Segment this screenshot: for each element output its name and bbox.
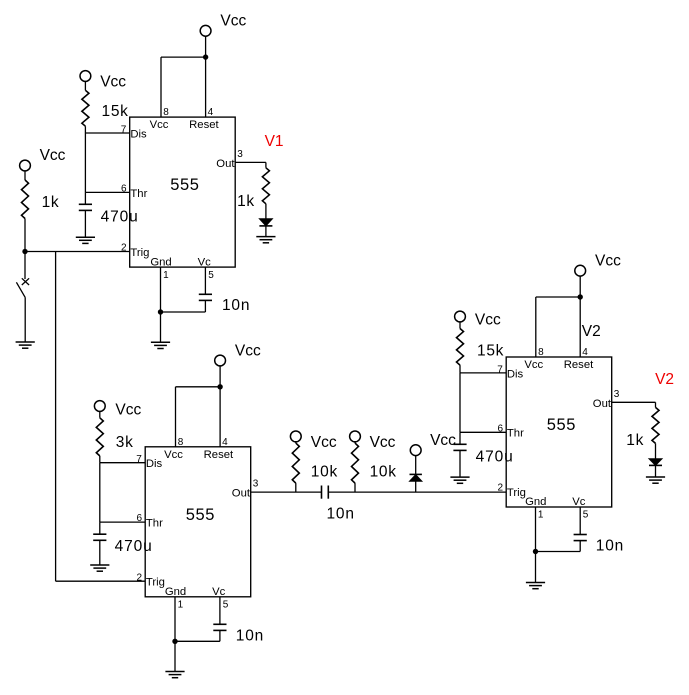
svg-text:Vcc: Vcc bbox=[235, 342, 261, 359]
resistor 1k (V2 output) bbox=[626, 407, 659, 458]
junction U1 ground node bbox=[158, 309, 163, 314]
wire to U1 pin 6 Thr bbox=[85, 191, 129, 193]
wire U3 Dis node down to Thr node bbox=[459, 373, 461, 432]
svg-text:555: 555 bbox=[186, 506, 215, 524]
Vcc power terminal above U1 bbox=[200, 13, 246, 37]
U1 pin 5 Vc label bbox=[198, 256, 215, 281]
wire U3 pin 3 Out to 1k bbox=[612, 402, 656, 407]
resistor 1k pull-up on trigger rail bbox=[22, 171, 60, 252]
U3 pin 7 Dis label bbox=[497, 364, 523, 380]
svg-text:555: 555 bbox=[547, 416, 576, 434]
Vcc power terminal for R 15k (U3) bbox=[455, 311, 501, 328]
junction on U3 Vcc wire bbox=[578, 294, 583, 299]
svg-text:4: 4 bbox=[208, 107, 214, 118]
svg-text:5: 5 bbox=[208, 270, 214, 281]
svg-text:Reset: Reset bbox=[564, 359, 594, 371]
capacitor 470u (U1 timing) bbox=[79, 192, 139, 237]
U2 pin 1 Gnd label bbox=[165, 586, 186, 611]
ground below 470u (U1) bbox=[76, 236, 95, 238]
svg-text:8: 8 bbox=[163, 107, 169, 118]
svg-text:1k: 1k bbox=[237, 193, 255, 210]
svg-text:Dis: Dis bbox=[130, 128, 147, 140]
svg-text:4: 4 bbox=[582, 347, 588, 358]
wire junction to U1 pin 8 bbox=[161, 57, 206, 117]
svg-text:V1: V1 bbox=[265, 133, 284, 150]
svg-text:555: 555 bbox=[170, 176, 199, 194]
svg-text:Vcc: Vcc bbox=[115, 401, 141, 418]
svg-text:10k: 10k bbox=[370, 464, 397, 481]
svg-text:Dis: Dis bbox=[146, 458, 163, 470]
555 timer IC U3 bbox=[506, 357, 612, 507]
wire to U2 pin 6 Thr bbox=[100, 521, 145, 523]
U1 pin 8 Vcc label bbox=[150, 107, 170, 131]
svg-text:7: 7 bbox=[497, 364, 503, 375]
svg-text:10n: 10n bbox=[327, 505, 355, 522]
Vcc power terminal above U2 bbox=[215, 342, 261, 366]
wire U2 pin 1 Gnd down bbox=[174, 597, 176, 642]
ground below diode D2 bbox=[646, 476, 665, 478]
U2 pin 8 Vcc label bbox=[164, 437, 184, 461]
svg-text:Gnd: Gnd bbox=[165, 586, 186, 598]
svg-text:10k: 10k bbox=[311, 464, 338, 481]
ground below switch bbox=[16, 341, 35, 343]
svg-text:470u: 470u bbox=[101, 208, 139, 225]
svg-text:7: 7 bbox=[136, 454, 142, 465]
svg-text:Gnd: Gnd bbox=[525, 496, 546, 508]
U2 pin 6 Thr label bbox=[136, 513, 163, 529]
diode D3 clamp to Vcc bbox=[410, 456, 422, 493]
svg-text:2: 2 bbox=[497, 483, 503, 494]
555 timer IC U2 bbox=[145, 447, 251, 597]
ground below U3 bbox=[526, 582, 545, 584]
Vcc power terminal for R 10k first bbox=[290, 431, 336, 451]
wire 15k to U3 pin 7 Dis bbox=[460, 372, 506, 374]
svg-text:4: 4 bbox=[222, 437, 228, 448]
U3 pin 2 Trig label bbox=[497, 483, 526, 499]
capacitor 470u (U2 timing) bbox=[93, 522, 152, 565]
capacitor 470u (U3 timing) bbox=[453, 432, 513, 477]
Vcc power terminal for R 3k (U2) bbox=[94, 401, 141, 419]
wire U1 ground node down bbox=[160, 312, 162, 342]
wire U2 pin 3 Out to coupling cap bbox=[251, 491, 322, 493]
U2 pin 2 Trig label bbox=[136, 572, 165, 588]
svg-text:Out: Out bbox=[593, 398, 612, 410]
ground below 470u (U2) bbox=[90, 564, 109, 566]
U1 pin 1 Gnd label bbox=[150, 256, 171, 281]
wire junction to U2 pin 8 bbox=[176, 387, 221, 447]
svg-text:Vcc: Vcc bbox=[311, 434, 337, 451]
wire coupling cap to U3 pin 2 Trig bbox=[328, 491, 506, 493]
resistor 3k (U2 discharge) bbox=[96, 411, 133, 462]
svg-text:Vcc: Vcc bbox=[370, 434, 396, 451]
svg-text:15k: 15k bbox=[477, 343, 504, 360]
resistor 10k second pull-up bbox=[352, 442, 397, 492]
junction on U1 Vcc wire bbox=[203, 54, 208, 59]
wire U1 pin 3 Out to 1k bbox=[235, 162, 266, 167]
capacitor 10n (U2 control) bbox=[213, 597, 264, 645]
svg-text:Vcc: Vcc bbox=[150, 119, 169, 131]
svg-text:1k: 1k bbox=[626, 432, 644, 449]
svg-text:1: 1 bbox=[538, 510, 544, 521]
svg-text:Trig: Trig bbox=[146, 577, 165, 589]
svg-text:Out: Out bbox=[216, 158, 235, 170]
svg-text:8: 8 bbox=[178, 437, 184, 448]
svg-text:Vcc: Vcc bbox=[475, 312, 501, 329]
wire U2 Dis node down to Thr node bbox=[99, 463, 101, 522]
ground below 470u (U3) bbox=[450, 476, 469, 478]
Vcc power terminal for R 1k pull-up bbox=[20, 147, 66, 171]
U2 pin 7 Dis label bbox=[136, 454, 162, 470]
svg-text:Thr: Thr bbox=[146, 518, 163, 530]
svg-text:2: 2 bbox=[136, 572, 142, 583]
U2 pin 4 Reset label bbox=[204, 437, 234, 461]
capacitor 10n coupling (series) bbox=[322, 486, 355, 523]
resistor 15k (U1 discharge) bbox=[82, 81, 129, 133]
Vcc power terminal above U3 bbox=[575, 253, 621, 277]
svg-text:Trig: Trig bbox=[130, 247, 149, 259]
junction node trigger rail bbox=[22, 249, 27, 254]
svg-text:7: 7 bbox=[121, 124, 127, 135]
svg-text:1k: 1k bbox=[42, 194, 60, 211]
ground below U2 bbox=[165, 671, 184, 673]
wire to U3 pin 6 Thr bbox=[460, 431, 506, 433]
wire U1 pin 1 Gnd down bbox=[160, 267, 162, 312]
diode D1 (V1 indicator) bbox=[259, 219, 272, 237]
Vcc power terminal for R 10k second bbox=[350, 431, 396, 451]
wire 15k to U1 pin 7 Dis bbox=[85, 132, 129, 134]
diode D2 (V2 indicator) bbox=[649, 459, 662, 477]
svg-text:3: 3 bbox=[237, 149, 243, 160]
Vcc power terminal for clamp diode bbox=[410, 432, 456, 456]
switch S1 to ground bbox=[16, 252, 29, 343]
svg-text:Vcc: Vcc bbox=[164, 449, 183, 461]
svg-text:Gnd: Gnd bbox=[150, 256, 171, 268]
svg-text:Vcc: Vcc bbox=[524, 359, 543, 371]
junction on U2 Vcc wire bbox=[217, 384, 222, 389]
svg-text:3: 3 bbox=[253, 479, 259, 490]
svg-text:Thr: Thr bbox=[507, 428, 524, 440]
svg-text:3k: 3k bbox=[116, 434, 134, 451]
U1 pin 6 Thr label bbox=[121, 184, 148, 200]
wire Vcc terminal down to U3 pin 4 bbox=[579, 276, 581, 357]
svg-text:Vcc: Vcc bbox=[40, 147, 66, 164]
svg-text:470u: 470u bbox=[476, 449, 514, 466]
U3 pin 1 Gnd label bbox=[525, 496, 546, 521]
svg-text:Vcc: Vcc bbox=[595, 253, 621, 270]
svg-text:1: 1 bbox=[163, 270, 169, 281]
svg-text:Vcc: Vcc bbox=[100, 73, 126, 90]
svg-text:15k: 15k bbox=[102, 103, 129, 120]
wire Dis node down to Thr node bbox=[84, 133, 86, 192]
wire U3 pin 1 Gnd down bbox=[535, 507, 537, 552]
U3 pin 3 Out label bbox=[593, 389, 620, 410]
wire 10n to Gnd junction (U3) bbox=[536, 551, 581, 553]
svg-text:470u: 470u bbox=[115, 538, 153, 555]
svg-text:Thr: Thr bbox=[130, 188, 147, 200]
U1 pin 7 Dis label bbox=[121, 124, 147, 140]
junction U2 ground node bbox=[172, 639, 177, 644]
wire 10n to Gnd junction (U1) bbox=[161, 311, 206, 313]
U3 pin 5 Vc label bbox=[572, 496, 589, 521]
svg-text:3: 3 bbox=[614, 389, 620, 400]
junction U3 ground node bbox=[533, 549, 538, 554]
U2 pin 3 Out label bbox=[232, 479, 259, 500]
svg-text:Vc: Vc bbox=[212, 586, 226, 598]
wire U3 ground node down bbox=[535, 552, 537, 583]
U3 pin 6 Thr label bbox=[497, 423, 524, 439]
svg-text:Vcc: Vcc bbox=[430, 432, 456, 449]
resistor 10k first pull-up bbox=[292, 442, 338, 492]
wire Vcc terminal down to U2 pin 4 bbox=[219, 366, 221, 447]
svg-text:V2: V2 bbox=[655, 371, 674, 388]
U1 pin 4 Reset label bbox=[189, 107, 219, 131]
wire trigger rail branch down to U2 Trig bbox=[56, 252, 146, 582]
resistor 1k (V1 output) bbox=[237, 168, 269, 219]
wire Vcc terminal down to U1 pin 4 bbox=[205, 36, 207, 117]
ground below diode D1 bbox=[256, 236, 275, 238]
wire 10n to Gnd junction (U2) bbox=[175, 640, 220, 642]
Vcc power terminal for R 15k (U1) bbox=[80, 71, 126, 91]
svg-text:5: 5 bbox=[223, 600, 229, 611]
U3 pin 4 Reset label bbox=[564, 347, 594, 371]
U1 pin 3 Out label bbox=[216, 149, 243, 170]
ground below U1 bbox=[151, 341, 170, 343]
svg-text:Out: Out bbox=[232, 488, 251, 500]
svg-text:10n: 10n bbox=[222, 297, 250, 314]
wire 3k to U2 pin 7 Dis bbox=[100, 462, 145, 464]
capacitor 10n (U3 control) bbox=[574, 507, 624, 555]
U1 pin 2 Trig label bbox=[121, 243, 150, 259]
resistor 15k (U3 discharge) bbox=[457, 322, 505, 373]
wire trigger rail to U1 pin 2 Trig bbox=[25, 251, 130, 253]
555 timer IC U1 bbox=[130, 117, 236, 267]
svg-text:V2: V2 bbox=[582, 323, 601, 340]
wire U2 ground node down bbox=[174, 641, 176, 671]
svg-text:10n: 10n bbox=[596, 538, 624, 555]
svg-text:Reset: Reset bbox=[189, 119, 219, 131]
svg-text:8: 8 bbox=[538, 347, 544, 358]
U2 pin 5 Vc label bbox=[212, 586, 229, 611]
svg-text:Vc: Vc bbox=[198, 256, 212, 268]
svg-text:Dis: Dis bbox=[507, 368, 524, 380]
svg-text:Vc: Vc bbox=[572, 496, 586, 508]
U3 pin 8 Vcc label bbox=[524, 347, 544, 371]
capacitor 10n (U1 control) bbox=[199, 267, 250, 314]
svg-text:Trig: Trig bbox=[507, 487, 526, 499]
svg-text:1: 1 bbox=[178, 600, 184, 611]
svg-text:10n: 10n bbox=[236, 628, 264, 645]
svg-text:Reset: Reset bbox=[204, 449, 234, 461]
wire junction to U3 pin 8 bbox=[536, 297, 580, 357]
svg-text:5: 5 bbox=[583, 510, 589, 521]
svg-text:Vcc: Vcc bbox=[220, 13, 246, 30]
